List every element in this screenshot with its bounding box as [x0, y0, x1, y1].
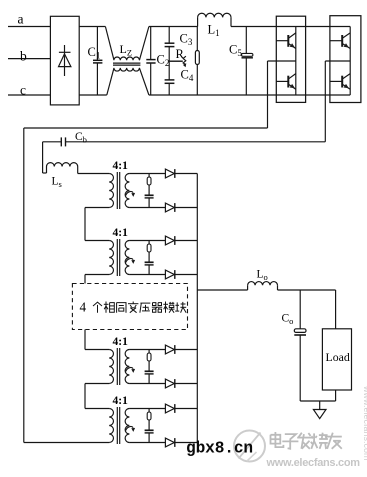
rectifier diode symbol — [59, 45, 71, 76]
capacitor C3 — [165, 27, 175, 62]
svg-text:Load: Load — [326, 350, 350, 364]
IGBT module U1 box — [276, 16, 305, 102]
ground symbol — [313, 401, 326, 419]
label C5 — [229, 43, 242, 59]
U1 conductor vertical — [295, 27, 297, 96]
Lz bowtie left wires — [105, 27, 114, 96]
label Load — [326, 350, 350, 364]
transformer T2 module with diodes D3 D4 and snubber — [109, 227, 197, 279]
wire Ls drop — [43, 142, 47, 173]
transistor Q3 (U2 top) — [330, 33, 350, 49]
wire Cb line right segment — [66, 141, 325, 143]
wire T1 bottom to T2 top — [85, 208, 109, 241]
dashed box 4 identical transformer modules — [72, 284, 187, 330]
wire left bus — [23, 128, 25, 443]
U2 conductor vertical — [349, 27, 351, 96]
IGBT module U2 box — [330, 16, 361, 103]
svg-text:c: c — [20, 83, 26, 98]
U2 midpoint output wire — [325, 60, 350, 62]
Lz bowtie right wires — [139, 27, 149, 96]
wire dashed box to T3 top — [85, 330, 109, 350]
watermark logo circle — [234, 431, 265, 462]
label Lo — [257, 269, 268, 283]
svg-text:a: a — [18, 12, 24, 27]
watermark text elecfans hanzi — [271, 432, 342, 449]
Lz core — [113, 63, 140, 65]
capacitor C2 — [146, 27, 155, 96]
label C3 — [180, 32, 193, 48]
label C4 — [181, 68, 194, 84]
load resistor box — [322, 329, 351, 390]
svg-text:4:1: 4:1 — [113, 395, 129, 407]
label b — [20, 49, 27, 64]
capacitor Cb — [61, 137, 65, 146]
label Cb — [75, 131, 87, 145]
wire T4 bottom return to left bus — [24, 442, 109, 444]
label C2 — [157, 53, 170, 69]
resistor R oval body — [195, 51, 199, 65]
wire top rail (L1 to bridge) — [231, 26, 350, 28]
label a — [18, 12, 24, 27]
label c — [20, 83, 26, 98]
transformer T4 module with diodes D7 D8 and snubber — [109, 395, 197, 447]
wire Ls to T1 — [78, 167, 110, 174]
label L1 — [208, 23, 220, 39]
inductor Lo — [248, 282, 278, 290]
svg-text:R: R — [176, 47, 185, 61]
svg-text:www.elecfans.com: www.elecfans.com — [362, 385, 367, 461]
capacitor C5 — [242, 27, 253, 96]
capacitor Co — [294, 290, 306, 401]
wire load bottom — [335, 390, 337, 401]
wire return line A — [24, 127, 268, 129]
wire bottom rail (Lz to bridge) — [149, 94, 350, 96]
wire U2 output drop — [324, 61, 326, 142]
wire C3-C4 midpoint to R arrow — [169, 60, 183, 62]
svg-text:gbx8.cn: gbx8.cn — [186, 440, 253, 458]
rectifier bridge box — [50, 16, 79, 105]
watermark vertical url — [362, 385, 367, 461]
wire load top drop — [335, 290, 337, 329]
transformer T1 module with diodes D1 D2 and snubber — [109, 160, 197, 212]
variable resistor arrow at R — [183, 56, 186, 67]
svg-text:4:1: 4:1 — [113, 160, 129, 172]
U1 midpoint output wire — [268, 60, 296, 62]
transistor Q2 (U1 bottom) — [276, 74, 296, 90]
input line b — [8, 58, 50, 60]
wire bottom rail (rectifier to Lz) — [79, 94, 107, 96]
wire U1 output drop — [267, 61, 269, 128]
label Co — [282, 313, 294, 327]
svg-text:4:1: 4:1 — [113, 336, 129, 348]
capacitor C1 — [93, 27, 102, 96]
wire Cb line left segment — [43, 141, 61, 143]
wire top rail (rectifier to Lz) — [79, 26, 105, 28]
inductor Ls — [47, 163, 78, 167]
label C1 — [88, 45, 101, 61]
text 4 identical transformer modules (hanzi) — [80, 300, 187, 315]
transformer T3 module with diodes D5 D6 and snubber — [109, 336, 197, 388]
wire T3 bottom to T4 top — [85, 384, 109, 409]
capacitor C4 — [165, 61, 175, 95]
inductor L1 — [198, 13, 231, 26]
input line a — [8, 26, 50, 28]
watermark url — [266, 457, 361, 469]
wire bottom node — [300, 400, 335, 402]
wire bus to Lo — [197, 289, 247, 291]
wire diode output bus — [196, 174, 198, 443]
svg-text:4:1: 4:1 — [113, 227, 129, 239]
transistor Q1 (U1 top) — [276, 33, 296, 49]
label Lz — [120, 42, 133, 58]
svg-text:b: b — [20, 49, 27, 64]
wire T2 bottom to dashed box — [85, 275, 109, 284]
wire oval branch vertical — [196, 27, 198, 96]
transistor Q4 (U2 bottom) — [330, 74, 350, 90]
wire top rail (Lz to L1) — [149, 26, 198, 28]
Lz bottom winding — [114, 68, 140, 71]
svg-text:4: 4 — [80, 300, 87, 315]
input line c — [8, 94, 50, 96]
label R — [176, 47, 185, 61]
wire Lo to load top — [278, 289, 336, 291]
text gbx8.cn — [186, 440, 253, 458]
svg-text:www.elecfans.com: www.elecfans.com — [266, 457, 361, 469]
Lz top winding — [114, 57, 140, 60]
label Ls — [52, 176, 62, 190]
